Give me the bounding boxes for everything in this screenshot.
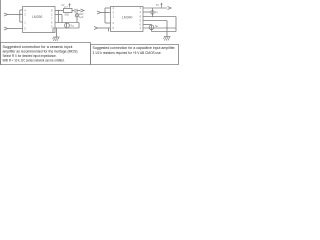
node E	[166, 27, 167, 28]
caption text right	[93, 45, 176, 55]
wire rail bottom	[152, 31, 177, 33]
ground 2	[166, 21, 168, 37]
wire	[8, 14, 23, 16]
capacitor C1	[74, 9, 76, 13]
svg-text:5V: 5V	[156, 4, 159, 7]
wire	[58, 11, 60, 23]
pin 8 wire	[55, 10, 63, 12]
wire	[20, 9, 23, 11]
pin labels right IC	[113, 4, 160, 30]
svg-text:1µ: 1µ	[155, 10, 158, 14]
caption box right	[91, 45, 179, 65]
capacitor C4 electrolytic	[152, 8, 154, 17]
wire	[143, 16, 176, 18]
output terminal 2	[168, 7, 172, 10]
svg-text:1µF: 1µF	[79, 15, 84, 19]
wire	[61, 15, 63, 23]
svg-text:2.7: 2.7	[64, 5, 68, 9]
wire	[8, 28, 23, 30]
wire	[101, 12, 111, 14]
svg-text:LM340: LM340	[122, 16, 132, 20]
capacitor C2 electrolytic	[76, 13, 78, 23]
svg-text:9V: 9V	[62, 4, 65, 7]
node D	[152, 16, 153, 17]
svg-text:5µ: 5µ	[155, 24, 158, 28]
wire	[105, 22, 111, 24]
wire	[98, 27, 111, 29]
wire	[20, 21, 23, 23]
op-amp U2	[111, 7, 144, 32]
capacitor C3 electrolytic	[65, 23, 70, 28]
wire bus 2	[104, 8, 106, 23]
caption text left	[3, 44, 79, 63]
pin wire	[143, 20, 167, 22]
node A	[19, 14, 20, 15]
ground	[56, 28, 58, 37]
pin labels left IC	[24, 4, 84, 31]
resistor R1	[64, 9, 73, 13]
wire rail	[55, 22, 79, 24]
svg-text:With R < 10 k, DC series netwo: With R < 10 k, DC series network can be …	[3, 58, 65, 63]
wire	[52, 28, 54, 33]
input terminal IN3	[97, 11, 101, 14]
pin wire	[143, 24, 152, 26]
pin3 out wire	[143, 7, 167, 9]
wire	[72, 10, 74, 12]
input terminal IN1	[4, 13, 8, 16]
left column rule	[0, 0, 2, 65]
output terminal	[77, 10, 81, 12]
svg-text:LM390: LM390	[32, 15, 42, 19]
input terminal IN4	[94, 27, 98, 30]
capacitor C5 electrolytic	[149, 25, 154, 30]
pin 2 wire	[55, 14, 62, 16]
svg-text:5µ: 5µ	[71, 24, 74, 28]
node C	[104, 12, 105, 13]
wire stub	[108, 28, 110, 32]
input terminal IN2	[4, 27, 8, 30]
wire rail low	[53, 27, 79, 29]
pin wire	[143, 27, 176, 29]
svg-text:3 1/2 k resistors required for: 3 1/2 k resistors required for +5 V AB C…	[93, 50, 162, 55]
wire	[105, 7, 111, 9]
caption box left	[1, 43, 91, 65]
wire	[78, 23, 80, 29]
supply arrow V+ right	[161, 3, 163, 7]
pin2 wire	[143, 11, 151, 13]
wire bus	[19, 10, 21, 22]
supply arrow V+	[69, 4, 71, 8]
node B	[58, 10, 59, 11]
op-amp U1	[23, 7, 55, 33]
wire right edge down	[175, 17, 177, 32]
svg-text:500: 500	[65, 12, 70, 16]
